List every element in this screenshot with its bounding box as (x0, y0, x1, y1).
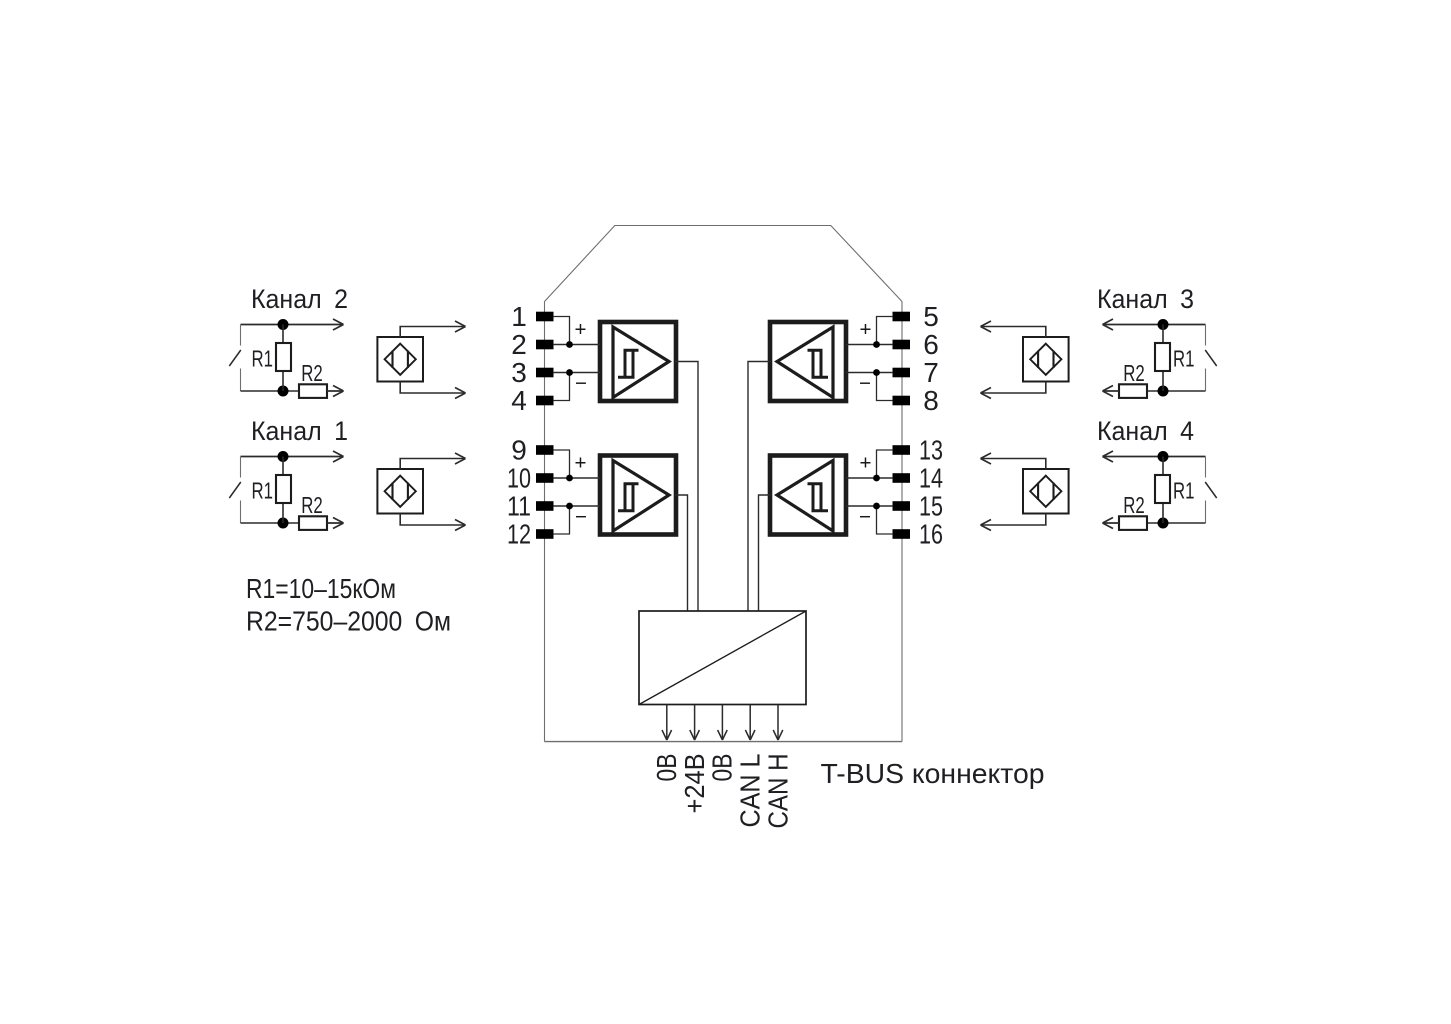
module body outline (trapezoid top) (545, 226, 903, 302)
svg-text:+: + (860, 452, 872, 475)
wire U1 output to power block (675, 362, 698, 612)
pin 12 terminal (536, 529, 554, 539)
wire pin 13 to + node (877, 450, 894, 478)
Канал 3 circuit contact switch blade (1205, 350, 1217, 366)
Канал 4 circuit right bracket bottom stub (1205, 501, 1207, 524)
wire R1 vertical (Канал 3 circuit) (1162, 325, 1164, 392)
Канал 4 circuit bottom wire (1147, 522, 1206, 524)
svg-text:Канал 3: Канал 3 (1097, 284, 1194, 314)
junction node + input (pins 13/14) (873, 475, 880, 482)
pin 15 terminal (893, 501, 911, 511)
Канал 4 circuit R2 output wire with arrow (1103, 522, 1120, 524)
wire pin 7 to − input (846, 372, 893, 374)
wire U3 output to power block (748, 362, 771, 612)
svg-text:7: 7 (923, 357, 939, 388)
B2 (channel 2) top lead with arrow (400, 327, 465, 338)
schmitt-trigger input amplifier U2 (channel 1) (600, 456, 676, 535)
junction node + input (pins 5/6) (873, 341, 880, 348)
schmitt-trigger input amplifier U1 (channel 2) (600, 322, 676, 401)
pin 10 terminal (536, 473, 554, 483)
schmitt-trigger input amplifier U4 (channel 4) (770, 456, 846, 535)
pin 11 terminal (536, 501, 554, 511)
svg-text:−: − (575, 372, 587, 395)
node Канал 3 circuit top junction (1158, 319, 1169, 330)
junction node − input (pins 15/16) (873, 503, 880, 510)
svg-text:−: − (575, 506, 587, 529)
module right edge wire (901, 302, 903, 742)
proximity sensor B4 (channel 4) (1023, 469, 1069, 514)
power supply & bus interface block U5 (639, 611, 806, 705)
B4 (channel 4) top lead with arrow (981, 459, 1046, 470)
Канал 1 circuit left bracket bottom stub (240, 501, 242, 524)
Канал 4 circuit right bracket top stub (1205, 457, 1207, 478)
svg-text:3: 3 (511, 357, 527, 388)
node Канал 2 circuit top junction (278, 319, 289, 330)
wire pin 14 to + input (846, 477, 893, 479)
B3 (channel 3) top lead with arrow (981, 327, 1046, 338)
wire pin 15 to − input (846, 505, 893, 507)
svg-text:13: 13 (919, 435, 943, 466)
Канал 3 circuit right bracket top stub (1205, 325, 1207, 346)
pin 4 terminal (536, 396, 554, 406)
bus line CAN H wire with down arrow (777, 705, 779, 741)
svg-text:R2: R2 (1123, 492, 1145, 518)
pin 3 terminal (536, 368, 554, 378)
junction node + input (pins 1/2) (566, 341, 573, 348)
wire pin 8 to − node (877, 373, 894, 401)
Канал 2 circuit top wire with arrow (241, 324, 344, 326)
junction node − input (pins 7/8) (873, 369, 880, 376)
proximity sensor B3 (channel 3) (1023, 337, 1069, 382)
junction node − input (pins 11/12) (566, 503, 573, 510)
Канал 1 circuit contact switch blade (229, 482, 241, 498)
bus line 0В wire with down arrow (666, 705, 668, 741)
svg-text:−: − (859, 506, 871, 529)
Канал 2 circuit bottom wire (241, 390, 300, 392)
pin 5 terminal (893, 312, 911, 322)
svg-text:16: 16 (919, 519, 943, 550)
svg-text:R2: R2 (301, 360, 323, 386)
svg-text:+: + (575, 452, 587, 475)
svg-text:4: 4 (511, 385, 527, 416)
bus line 0В wire with down arrow (721, 705, 723, 741)
node Канал 4 circuit bottom junction (1158, 518, 1169, 529)
svg-text:R1: R1 (1173, 346, 1195, 372)
schmitt-trigger input amplifier U3 (channel 3) (770, 322, 846, 401)
B1 (channel 1) top lead with arrow (400, 459, 465, 470)
Канал 2 circuit R2 output wire with arrow (327, 390, 344, 392)
B2 (channel 2) bottom lead with arrow (400, 382, 465, 394)
U5 converter diagonal (639, 611, 806, 705)
pin 1 terminal (536, 312, 554, 322)
node Канал 1 circuit top junction (278, 451, 289, 462)
svg-text:+: + (860, 318, 872, 341)
Канал 2 circuit contact switch blade (229, 350, 241, 366)
svg-text:R1: R1 (1173, 478, 1195, 504)
svg-text:6: 6 (923, 329, 939, 360)
wire U4 output to power block (759, 495, 772, 612)
pin 9 terminal (536, 445, 554, 455)
svg-text:Канал 2: Канал 2 (251, 284, 348, 314)
B3 (channel 3) bottom lead with arrow (981, 382, 1046, 394)
svg-text:+24В: +24В (679, 754, 710, 814)
Канал 2 circuit left bracket top stub (240, 325, 242, 346)
pin 8 terminal (893, 396, 911, 406)
pin 6 terminal (893, 340, 911, 350)
svg-text:CAN H: CAN H (762, 754, 793, 829)
svg-text:15: 15 (919, 491, 943, 522)
Канал 3 circuit bottom wire (1147, 390, 1206, 392)
wire R1 vertical (Канал 1 circuit) (282, 457, 284, 524)
Канал 3 circuit right bracket bottom stub (1205, 369, 1207, 392)
svg-text:R2: R2 (301, 492, 323, 518)
bus line +24В wire with down arrow (694, 705, 696, 741)
pin 14 terminal (893, 473, 911, 483)
proximity sensor B1 (channel 1) (377, 469, 423, 514)
resistor R1 (Канал 4 circuit) (1155, 475, 1170, 503)
svg-text:10: 10 (507, 463, 531, 494)
svg-text:R2=750–2000 Ом: R2=750–2000 Ом (246, 606, 451, 637)
svg-text:5: 5 (923, 301, 939, 332)
svg-text:14: 14 (919, 463, 943, 494)
Канал 4 circuit contact switch blade (1205, 482, 1217, 498)
svg-text:−: − (859, 372, 871, 395)
wire pin 12 to − node (553, 506, 570, 534)
svg-text:+: + (575, 318, 587, 341)
resistor R1 (Канал 2 circuit) (276, 343, 291, 371)
junction node + input (pins 9/10) (566, 475, 573, 482)
B4 (channel 4) bottom lead with arrow (981, 514, 1046, 526)
Канал 1 circuit bottom wire (241, 522, 300, 524)
svg-text:Канал 4: Канал 4 (1097, 416, 1194, 446)
wire U2 output to power block (675, 495, 688, 612)
resistor R2 (R2 ch2) (299, 384, 327, 398)
wire R1 vertical (Канал 4 circuit) (1162, 457, 1164, 524)
wire pin 5 to + node (877, 317, 894, 345)
Канал 3 circuit R2 output wire with arrow (1103, 390, 1120, 392)
pin 13 terminal (893, 445, 911, 455)
Канал 4 circuit top wire with arrow (1103, 456, 1206, 458)
module left edge wire (544, 302, 546, 742)
wire pin 4 to − node (553, 373, 570, 401)
Канал 2 circuit left bracket bottom stub (240, 369, 242, 392)
node Канал 2 circuit bottom junction (278, 386, 289, 397)
svg-text:0В: 0В (707, 754, 738, 782)
svg-text:Канал 1: Канал 1 (251, 416, 348, 446)
wire pin 1 to + node (553, 317, 570, 345)
svg-text:2: 2 (511, 329, 527, 360)
Канал 1 circuit R2 output wire with arrow (327, 522, 344, 524)
node Канал 4 circuit top junction (1158, 451, 1169, 462)
svg-text:9: 9 (511, 435, 527, 466)
resistor R2 (R2 ch3) (1119, 384, 1147, 398)
node Канал 1 circuit bottom junction (278, 518, 289, 529)
svg-text:T-BUS коннектор: T-BUS коннектор (821, 758, 1045, 789)
wire pin 9 to + node (553, 450, 570, 478)
wire pin 3 to − input (553, 372, 600, 374)
pin 2 terminal (536, 340, 554, 350)
module bottom edge wire (545, 741, 903, 743)
Канал 3 circuit top wire with arrow (1103, 324, 1206, 326)
junction node − input (pins 3/4) (566, 369, 573, 376)
resistor R1 (Канал 1 circuit) (276, 475, 291, 503)
pin 7 terminal (893, 368, 911, 378)
svg-text:R2: R2 (1123, 360, 1145, 386)
svg-text:1: 1 (511, 301, 527, 332)
svg-text:R1=10–15кОм: R1=10–15кОм (246, 573, 396, 604)
wire pin 2 to + input (553, 344, 600, 346)
svg-text:11: 11 (507, 491, 531, 522)
Канал 1 circuit left bracket top stub (240, 457, 242, 478)
wire pin 11 to − input (553, 505, 600, 507)
wire R1 vertical (Канал 2 circuit) (282, 325, 284, 392)
B1 (channel 1) bottom lead with arrow (400, 514, 465, 526)
svg-text:12: 12 (507, 519, 531, 550)
svg-text:R1: R1 (252, 346, 274, 372)
bus line CAN L wire with down arrow (749, 705, 751, 741)
pin 16 terminal (893, 529, 911, 539)
svg-text:R1: R1 (252, 478, 274, 504)
wire pin 16 to − node (877, 506, 894, 534)
Канал 1 circuit top wire with arrow (241, 456, 344, 458)
node Канал 3 circuit bottom junction (1158, 386, 1169, 397)
svg-text:CAN L: CAN L (735, 754, 766, 828)
resistor R2 (R2 ch1) (299, 516, 327, 530)
wire pin 10 to + input (553, 477, 600, 479)
proximity sensor B2 (channel 2) (377, 337, 423, 382)
resistor R2 (R2 ch4) (1119, 516, 1147, 530)
wire pin 6 to + input (846, 344, 893, 346)
resistor R1 (Канал 3 circuit) (1155, 343, 1170, 371)
svg-text:8: 8 (923, 385, 939, 416)
svg-text:0В: 0В (651, 754, 682, 782)
